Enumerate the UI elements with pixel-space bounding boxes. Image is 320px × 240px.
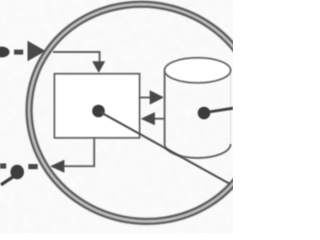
node: dot inside process rectangle bbox=[92, 105, 105, 118]
data store cylinder top ellipse bbox=[165, 58, 231, 83]
wire: pointer from data store dot to right edge bbox=[209, 108, 234, 112]
data store cylinder left side bbox=[164, 70, 166, 144]
data store cylinder bottom arc bbox=[165, 144, 231, 158]
node: dot inside data store cylinder bbox=[198, 107, 211, 120]
wire: process bottom riser and run to output arrow bbox=[63, 138, 94, 166]
node: external output dot bbox=[10, 165, 24, 179]
wire: external output dash B bbox=[0, 163, 6, 168]
arrowhead: output arrow leaving boundary (points left) bbox=[50, 160, 64, 173]
arrowhead: into top of process rectangle (points down) bbox=[92, 61, 105, 73]
arrowhead: into right side of process rectangle (points left) bbox=[141, 112, 155, 125]
data store cylinder right side (faint, scan-faded) bbox=[230, 72, 232, 143]
process rectangle bbox=[55, 74, 140, 138]
wire: data store to process (lower) bbox=[154, 118, 165, 120]
arrowhead: into data store (points right) bbox=[150, 90, 164, 104]
wire: process to data store (upper) bbox=[140, 97, 152, 99]
wire: external input line top-left dash A bbox=[0, 47, 10, 58]
wire: external input line top-left dash B bbox=[14, 50, 23, 55]
wire: diagonal pointer from process dot to boundary bbox=[101, 112, 231, 184]
wire: input run inside boundary to corner bbox=[53, 52, 100, 64]
arrowhead: input arrow into boundary (points right) bbox=[28, 41, 46, 61]
wire: external output dash A bbox=[28, 164, 37, 169]
wire: external output dot tail bbox=[1, 177, 14, 185]
scanned-paper mottle bbox=[0, 0, 233, 233]
